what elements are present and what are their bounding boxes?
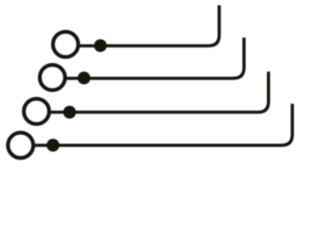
terminal circle, level 2 (40, 65, 65, 90)
terminal circle, level 1 (53, 32, 78, 57)
wire level 4 (33, 104, 293, 146)
wire level 1 (78, 5, 220, 46)
terminal circle, level 3 (24, 99, 49, 124)
junction dot, level 3 (63, 106, 76, 119)
junction dot, level 4 (47, 139, 60, 152)
wire level 2 (64, 38, 244, 79)
terminal circle, level 4 (8, 133, 33, 158)
junction dot, level 2 (78, 72, 91, 85)
junction dot, level 1 (94, 39, 107, 52)
wire level 3 (49, 72, 269, 113)
